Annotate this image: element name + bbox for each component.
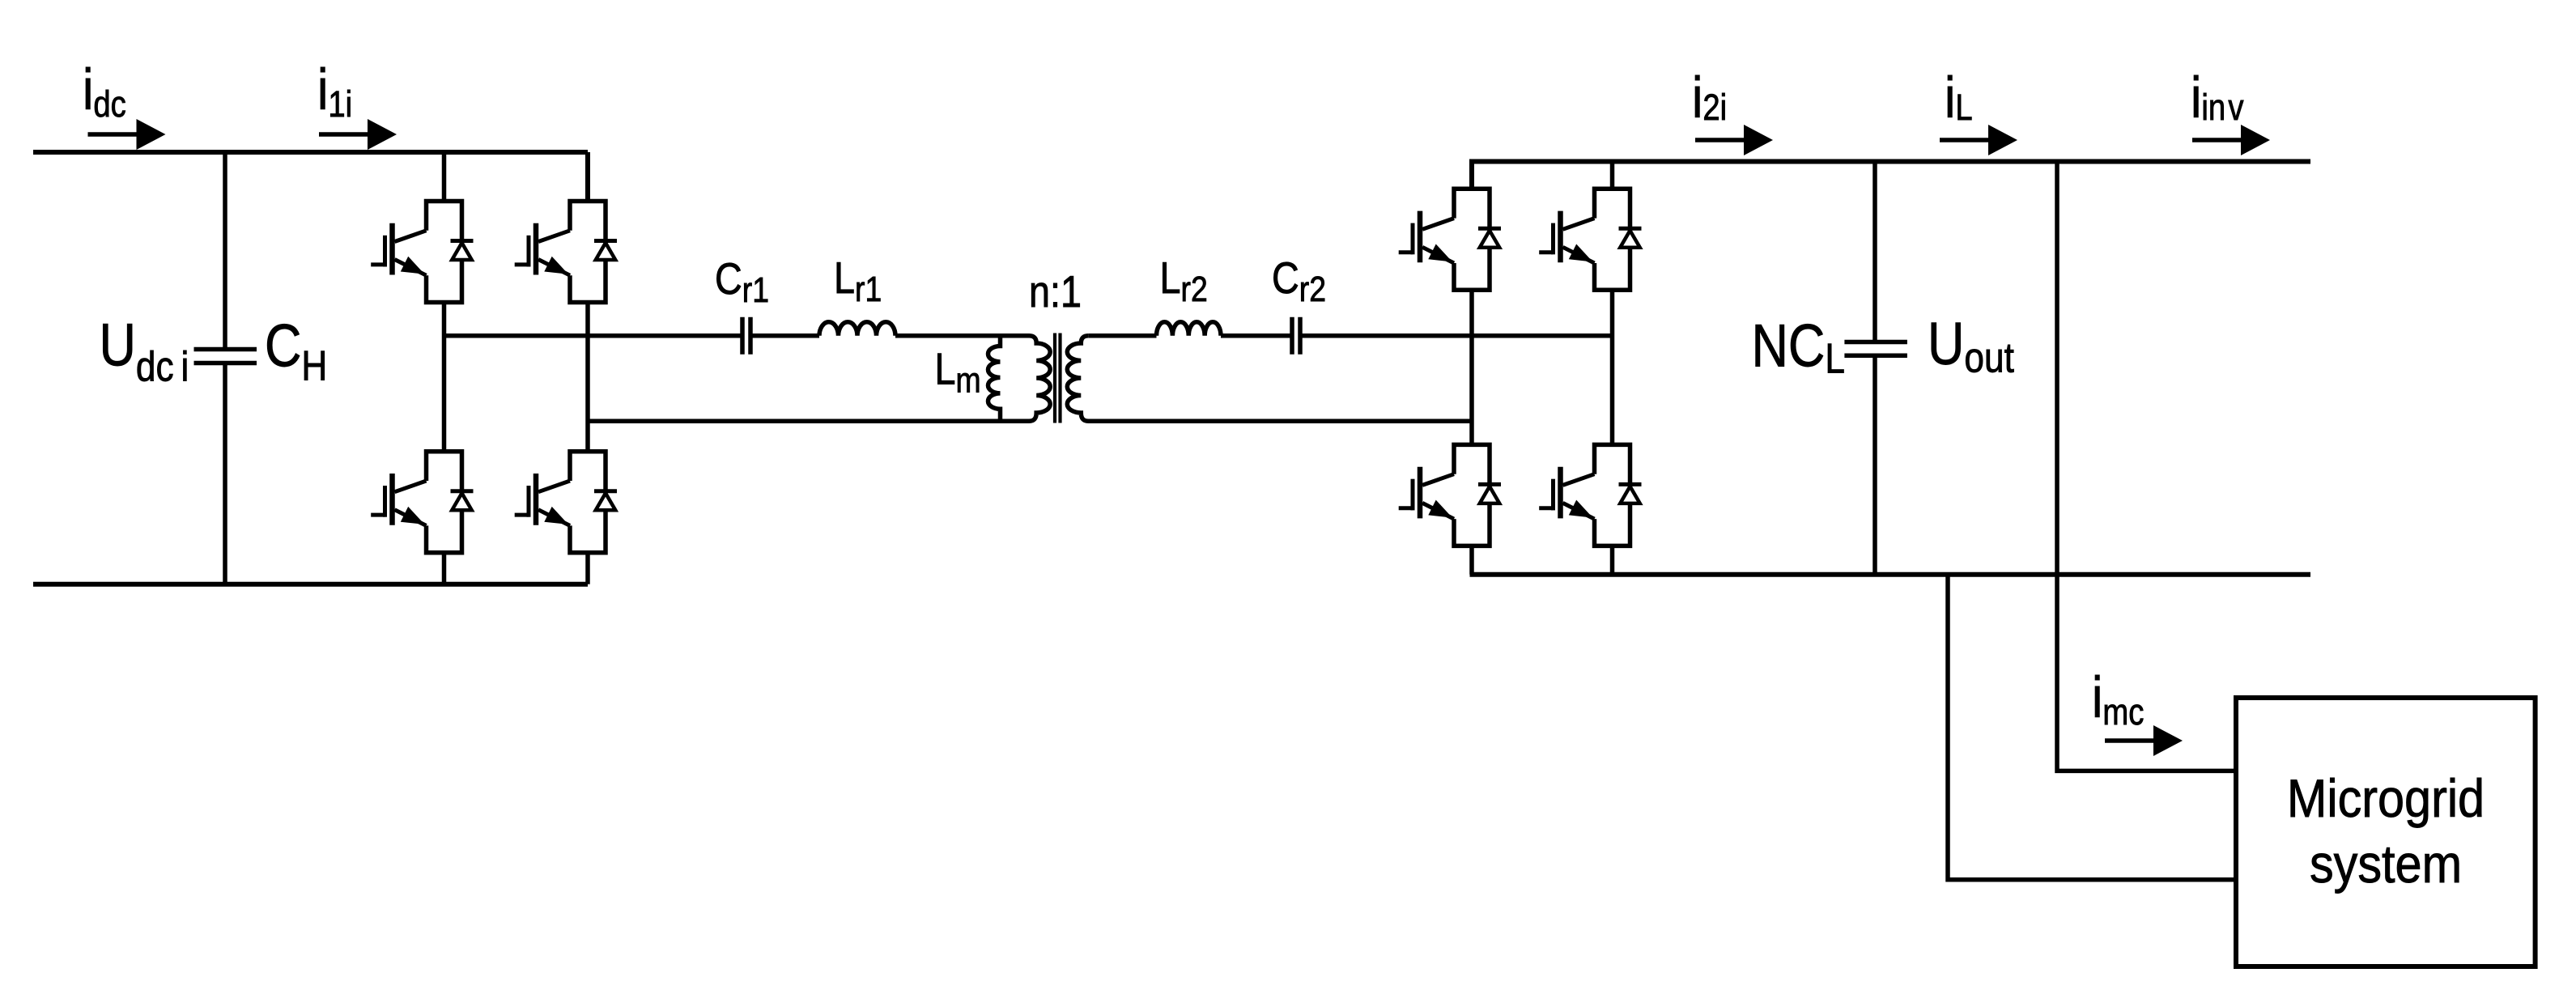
wire: left bridge leg B top corner <box>585 152 590 202</box>
svg-text:Microgrid: Microgrid <box>2287 769 2485 829</box>
transistor Q8 (right bridge lower-right IGBT) <box>1539 444 1641 546</box>
transistor Q3 (left bridge lower-left IGBT) <box>371 452 473 553</box>
label L_r1 <box>834 253 882 308</box>
arrow i_dc <box>88 119 166 150</box>
wire: left bridge leg B emitter stub <box>585 553 590 584</box>
arrow i_1i <box>319 119 397 150</box>
svg-text:CH: CH <box>265 312 327 390</box>
label C_r1 <box>715 253 769 309</box>
inductor Lm (magnetizing) <box>988 336 1000 422</box>
wire: output right branch down to microgrid upper input <box>2057 162 2236 771</box>
label C_r2 <box>1272 253 1326 308</box>
svg-text:imc: imc <box>2092 665 2144 732</box>
svg-text:system: system <box>2310 835 2462 894</box>
wire: upper tank wire to transformer, primary winding, lower tank wire <box>588 336 1050 422</box>
arrow i_mc <box>2105 725 2183 756</box>
transistor Q4 (left bridge lower-right IGBT) <box>515 452 617 553</box>
wire: left bridge leg A mid <box>442 303 447 452</box>
label L_r2 <box>1160 253 1208 308</box>
wire: right bridge leg C emitter stub <box>1469 546 1474 574</box>
svg-text:Lm: Lm <box>935 344 981 400</box>
wire: right bridge leg D collector stub <box>1610 162 1615 189</box>
wire: left bridge leg A collector stub <box>442 152 447 202</box>
transistor Q1 (left bridge upper-left IGBT) <box>371 202 473 303</box>
wire: Cr2 to right bridge leg D <box>1302 333 1613 338</box>
transformer secondary winding and lower-right wire <box>1067 336 1472 422</box>
capacitor Cr2 plates <box>1292 317 1300 355</box>
label U_out <box>1928 310 2014 381</box>
capacitor Cr1 plates <box>742 317 750 355</box>
wire: right bridge leg D mid <box>1610 290 1615 444</box>
svg-text:i2i: i2i <box>1692 65 1727 130</box>
svg-text:n:1: n:1 <box>1029 266 1082 316</box>
label i_1i <box>317 57 352 124</box>
wire: bottom bus branch down to microgrid lower input <box>1948 575 2236 880</box>
wire: upper right tank wire to Lr2 <box>1088 333 1156 338</box>
wire: top-left DC bus <box>33 150 588 155</box>
capacitor NC_L wire lower <box>1872 358 1877 575</box>
transistor Q6 (right bridge upper-right IGBT) <box>1539 189 1641 290</box>
label NC_L <box>1752 312 1845 383</box>
svg-text:iin v: iin v <box>2191 65 2244 130</box>
inductor Lr1 <box>819 322 895 336</box>
wire: bottom-right bus <box>1470 572 2311 577</box>
arrow i_2i <box>1695 125 1773 155</box>
wire: left bridge leg B mid <box>585 303 590 452</box>
capacitor NC_L wire upper <box>1872 162 1877 341</box>
label n:1 <box>1029 266 1082 316</box>
svg-text:Udc i: Udc i <box>100 312 189 391</box>
svg-text:idc: idc <box>83 57 126 124</box>
capacitor C_H plates <box>194 350 257 363</box>
label U_dci <box>100 312 189 391</box>
svg-text:NCL: NCL <box>1752 312 1845 383</box>
label i_2i <box>1692 65 1727 130</box>
wire: right bridge leg D emitter stub <box>1610 546 1615 574</box>
wire: right bridge leg C mid <box>1469 290 1474 444</box>
label i_inv <box>2191 65 2244 130</box>
svg-text:Cr2: Cr2 <box>1272 253 1326 308</box>
label i_mc <box>2092 665 2144 732</box>
transistor Q7 (right bridge lower-left IGBT) <box>1399 444 1501 546</box>
transistor Q5 (right bridge upper-left IGBT) <box>1399 189 1501 290</box>
svg-text:Cr1: Cr1 <box>715 253 769 309</box>
arrow i_inv <box>2192 125 2270 155</box>
wire: top-right bus with corner into leg C <box>1472 162 2310 189</box>
Microgrid system box <box>2236 698 2536 966</box>
capacitor C_H wire lower <box>223 365 227 584</box>
svg-text:iL: iL <box>1945 65 1973 130</box>
wire: left bridge leg A emitter stub <box>442 553 447 584</box>
capacitor C_H wire upper <box>223 152 227 347</box>
label Microgrid system <box>2287 769 2485 829</box>
label i_dc <box>83 57 126 124</box>
arrow i_L <box>1940 125 2017 155</box>
svg-text:Lr1: Lr1 <box>834 253 882 308</box>
label L_m <box>935 344 981 400</box>
label C_H <box>265 312 327 390</box>
label i_L <box>1945 65 1973 130</box>
wire: bottom-left DC bus <box>33 582 588 587</box>
wire: upper tank wire to Lr1 <box>752 333 819 338</box>
wire: upper tank wire left segment <box>444 333 742 338</box>
wire: Lr2 to Cr2 <box>1221 333 1290 338</box>
svg-text:i1i: i1i <box>317 57 352 124</box>
transformer core lines <box>1055 333 1061 423</box>
transistor Q2 (left bridge upper-right IGBT) <box>515 202 617 303</box>
svg-text:Lr2: Lr2 <box>1160 253 1208 308</box>
capacitor NC_L plates <box>1844 342 1907 356</box>
inductor Lr2 <box>1157 322 1222 336</box>
svg-text:Uout: Uout <box>1928 310 2014 381</box>
